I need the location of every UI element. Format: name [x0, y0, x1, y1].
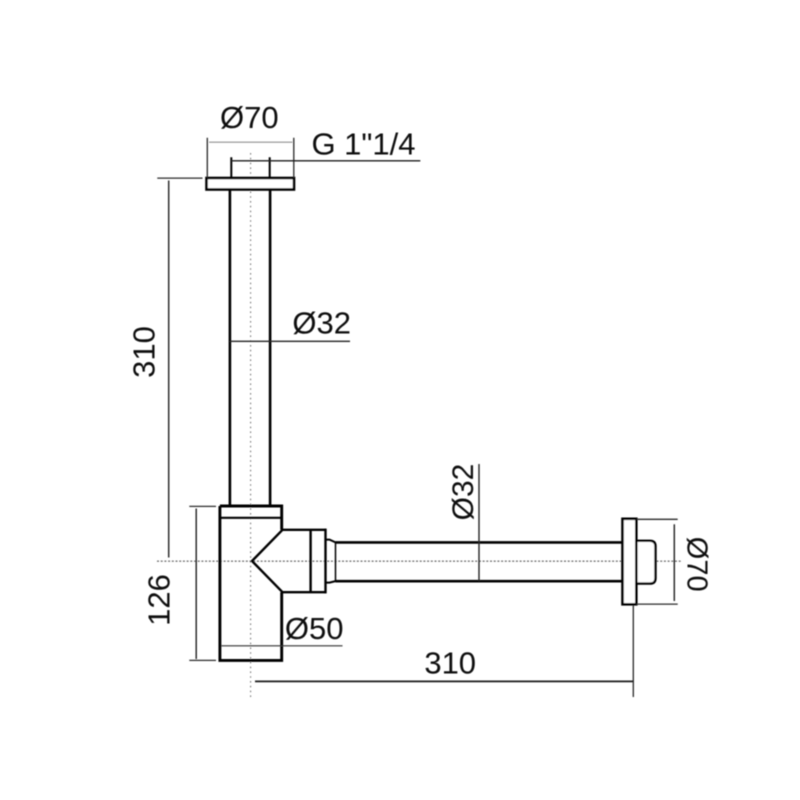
svg-text:Ø70: Ø70: [220, 100, 279, 135]
horizontal centerline: [157, 560, 681, 562]
horizontal outlet pipe Ø32: [336, 542, 623, 581]
wall fitting: [636, 541, 655, 584]
svg-text:310: 310: [127, 326, 162, 378]
dimension Ø70 top extension lines: [207, 138, 293, 178]
dimension Ø70 top line: [209, 141, 293, 143]
vertical centerline: [250, 153, 252, 699]
svg-text:Ø32: Ø32: [292, 306, 351, 341]
svg-text:G 1"1/4: G 1"1/4: [311, 127, 415, 162]
dimension 310 left line: [168, 181, 170, 558]
label Ø70 right: [681, 537, 713, 592]
label 310 left: [127, 326, 162, 378]
label G 1"1/4: [311, 127, 415, 162]
dimension 126 extension lines: [189, 506, 216, 660]
label Ø32 right: [447, 464, 480, 521]
dimension 310 left extension line: [157, 177, 202, 179]
chamfer stub: [326, 540, 336, 583]
dimension 126 line: [195, 509, 197, 660]
label 126: [142, 574, 177, 626]
dimension Ø70 right line: [673, 524, 675, 601]
tee cone: [252, 530, 326, 592]
dimension Ø70 right extension lines: [636, 519, 677, 604]
wall flange: [623, 519, 637, 605]
label 310 bottom: [424, 646, 476, 681]
vertical tailpipe Ø32: [230, 190, 270, 507]
label Ø50: [285, 611, 344, 646]
dimension 310 bottom extension line: [632, 605, 634, 697]
dimension 310 bottom line: [255, 680, 633, 682]
label Ø70 top: [220, 100, 279, 135]
threaded neck above flange: [231, 157, 269, 178]
svg-text:Ø32: Ø32: [447, 464, 480, 521]
svg-text:Ø50: Ø50: [285, 611, 344, 646]
label Ø32 top: [292, 306, 351, 341]
svg-text:126: 126: [142, 574, 177, 626]
trap body (bottle): [220, 506, 282, 660]
svg-text:310: 310: [424, 646, 476, 681]
top flange: [207, 178, 295, 190]
compression ring: [311, 529, 326, 594]
leader Ø50: [222, 645, 343, 647]
svg-text:Ø70: Ø70: [681, 537, 713, 592]
leader G 1"1/4: [231, 160, 420, 162]
leader Ø32 top: [230, 340, 350, 342]
leader Ø32 right: [478, 464, 480, 581]
body cap line: [220, 517, 282, 519]
